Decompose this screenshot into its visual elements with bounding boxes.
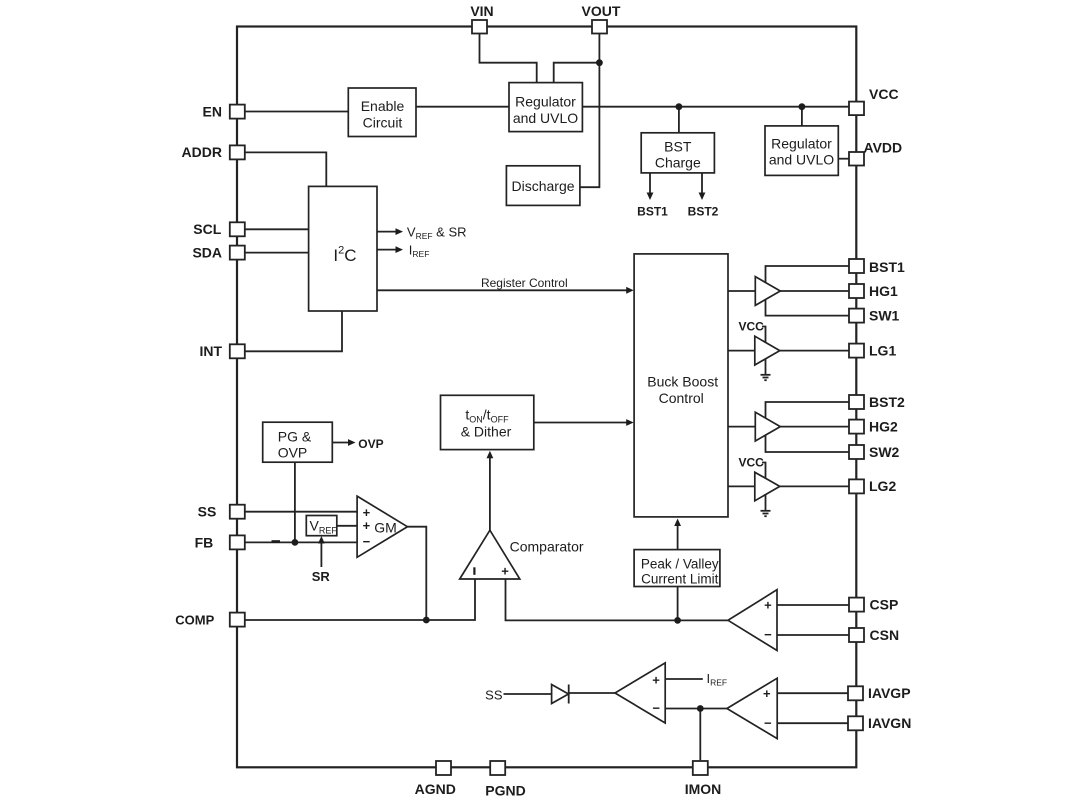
svg-text:ADDR: ADDR <box>182 144 222 160</box>
svg-text:Charge: Charge <box>655 155 701 171</box>
svg-text:−: − <box>764 627 772 642</box>
svg-text:IAVGN: IAVGN <box>868 715 911 731</box>
svg-text:−: − <box>652 701 660 716</box>
svg-text:−: − <box>764 716 772 731</box>
svg-text:VCC: VCC <box>739 320 765 334</box>
svg-text:SS: SS <box>198 504 217 520</box>
svg-text:CSN: CSN <box>870 627 900 643</box>
svg-text:SS: SS <box>485 688 503 703</box>
svg-text:Enable: Enable <box>361 98 405 114</box>
svg-text:Comparator: Comparator <box>510 539 584 555</box>
svg-text:IMON: IMON <box>685 781 722 797</box>
svg-text:SW2: SW2 <box>869 444 900 460</box>
svg-text:+: + <box>652 673 660 688</box>
svg-text:+: + <box>763 686 771 701</box>
svg-text:Regulator: Regulator <box>515 94 576 110</box>
svg-text:BST2: BST2 <box>688 205 719 219</box>
svg-text:IREF: IREF <box>707 671 728 688</box>
svg-text:SCL: SCL <box>193 221 221 237</box>
svg-text:Peak / Valley: Peak / Valley <box>641 557 719 572</box>
svg-text:LG2: LG2 <box>869 478 896 494</box>
svg-text:VREF & SR: VREF & SR <box>407 225 467 242</box>
svg-text:OVP: OVP <box>358 437 383 451</box>
svg-text:AGND: AGND <box>415 781 456 797</box>
svg-text:VCC: VCC <box>869 86 899 102</box>
svg-text:SW1: SW1 <box>869 307 900 323</box>
svg-text:OVP: OVP <box>278 444 308 460</box>
svg-text:Control: Control <box>659 390 704 406</box>
svg-text:GM: GM <box>374 520 397 536</box>
svg-text:VIN: VIN <box>470 3 493 19</box>
svg-text:IREF: IREF <box>409 243 430 260</box>
svg-text:HG2: HG2 <box>869 418 898 434</box>
svg-text:and UVLO: and UVLO <box>513 110 578 126</box>
svg-text:Discharge: Discharge <box>511 178 574 194</box>
svg-text:FB: FB <box>195 534 214 550</box>
svg-text:Circuit: Circuit <box>363 115 403 131</box>
svg-text:HG1: HG1 <box>869 283 898 299</box>
svg-text:+: + <box>764 598 772 613</box>
svg-text:Buck Boost: Buck Boost <box>647 374 718 390</box>
svg-text:Regulator: Regulator <box>771 135 832 151</box>
svg-text:I2C: I2C <box>333 245 356 266</box>
svg-text:CSP: CSP <box>870 597 899 613</box>
svg-text:BST2: BST2 <box>869 394 905 410</box>
svg-text:VCC: VCC <box>739 456 765 470</box>
svg-text:PG &: PG & <box>278 429 312 445</box>
svg-text:+: + <box>363 518 371 533</box>
svg-text:PGND: PGND <box>485 783 525 799</box>
svg-text:COMP: COMP <box>175 613 214 628</box>
svg-text:Register Control: Register Control <box>481 276 568 290</box>
svg-text:BST1: BST1 <box>869 259 905 275</box>
svg-text:LG1: LG1 <box>869 342 896 358</box>
svg-text:VOUT: VOUT <box>582 3 621 19</box>
svg-text:and UVLO: and UVLO <box>769 151 834 167</box>
svg-text:Current Limit: Current Limit <box>641 571 719 586</box>
svg-text:INT: INT <box>199 343 222 359</box>
svg-text:IAVGP: IAVGP <box>868 685 911 701</box>
svg-text:EN: EN <box>203 104 222 120</box>
svg-text:BST1: BST1 <box>637 205 668 219</box>
svg-text:−: − <box>363 534 371 549</box>
svg-text:SR: SR <box>312 569 331 584</box>
svg-text:AVDD: AVDD <box>864 140 903 156</box>
svg-text:SDA: SDA <box>192 245 222 261</box>
svg-text:+: + <box>501 564 509 579</box>
svg-text:& Dither: & Dither <box>461 423 512 439</box>
svg-text:BST: BST <box>664 138 692 154</box>
